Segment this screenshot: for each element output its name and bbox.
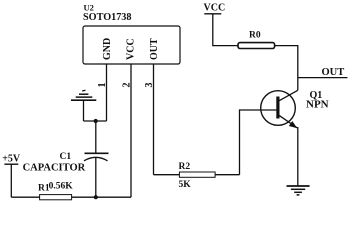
- resistor R2 body: [179, 172, 215, 177]
- resistor R0 body: [238, 43, 275, 49]
- wire R2 up to base: [240, 110, 278, 175]
- svg-text:3: 3: [144, 83, 155, 88]
- svg-text:VCC: VCC: [126, 38, 137, 60]
- svg-text:GND: GND: [102, 38, 113, 60]
- transistor Q1 emitter diagonal: [279, 115, 297, 128]
- capacitor C1 curved plate: [84, 157, 108, 161]
- svg-text:CAPACITOR: CAPACITOR: [23, 162, 86, 173]
- svg-text:C1: C1: [60, 152, 72, 162]
- ground (earth up) stem: [83, 100, 85, 121]
- svg-text:+5V: +5V: [2, 154, 21, 165]
- transistor Q1 base bar: [276, 97, 279, 119]
- wire R0 to collector corner: [275, 46, 298, 91]
- svg-text:0.56K: 0.56K: [49, 181, 74, 191]
- ground bottom bar 4: [297, 194, 300, 196]
- wire bottom rail: [11, 196, 131, 198]
- wire capacitor to rail: [95, 158, 97, 197]
- svg-text:U2: U2: [84, 2, 94, 12]
- wire ground horizontal to pin1: [84, 120, 107, 122]
- wire pin1 GND down: [106, 64, 108, 121]
- ground bar 2: [76, 96, 93, 98]
- svg-text:NPN: NPN: [306, 99, 329, 111]
- power +5V stem: [10, 164, 12, 197]
- wire R2 row horizontal: [154, 174, 240, 176]
- ground bottom bar 3: [294, 191, 302, 193]
- svg-text:VCC: VCC: [204, 2, 226, 13]
- svg-text:2: 2: [122, 83, 133, 88]
- svg-text:R0: R0: [249, 31, 261, 41]
- svg-text:OUT: OUT: [322, 67, 345, 78]
- svg-text:5K: 5K: [179, 180, 192, 190]
- junction dot at ground/cap node: [94, 119, 98, 123]
- capacitor C1 top plate: [85, 152, 109, 154]
- ground bottom bar 1: [287, 185, 310, 187]
- junction dot rail/capacitor: [94, 195, 98, 199]
- wire OUT stub: [298, 77, 348, 79]
- ground bottom bar 2: [291, 188, 305, 190]
- wire emitter down to ground: [297, 127, 299, 186]
- ground bar top tick: [82, 89, 85, 92]
- IC U2 body: [83, 26, 180, 64]
- svg-text:R2: R2: [179, 162, 191, 172]
- svg-text:SOTO1738: SOTO1738: [83, 12, 132, 23]
- power VCC bar: [204, 13, 221, 15]
- resistor R1 body: [40, 195, 72, 200]
- ground bar 3: [79, 93, 88, 95]
- wire pin2 VCC down to rail: [130, 64, 132, 197]
- svg-text:OUT: OUT: [149, 38, 160, 60]
- wire pin3 OUT down to R2 row: [153, 64, 155, 175]
- transistor Q1 circle: [261, 91, 296, 126]
- power +5V bar: [4, 163, 18, 165]
- svg-text:1: 1: [97, 83, 108, 88]
- power VCC stem: [213, 14, 238, 46]
- wire node to capacitor C1: [95, 121, 97, 153]
- transistor Q1 emitter arrowhead: [289, 121, 297, 128]
- ground bar widest: [71, 99, 96, 101]
- transistor Q1 collector diagonal: [279, 90, 298, 101]
